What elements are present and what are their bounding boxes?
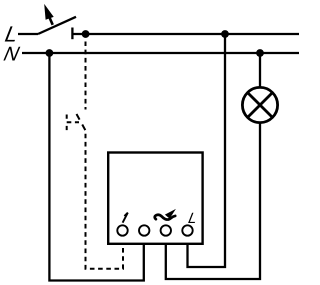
svg-text:L: L [187, 210, 199, 227]
svg-text:N: N [2, 44, 22, 66]
